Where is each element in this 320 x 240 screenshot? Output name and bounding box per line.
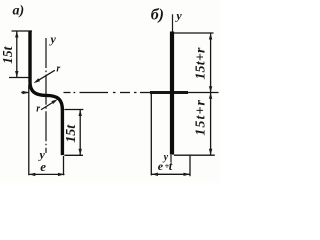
svg-text:а): а)	[13, 4, 25, 19]
svg-text:15t: 15t	[0, 45, 15, 64]
svg-text:r: r	[56, 64, 60, 75]
svg-text:y: y	[49, 32, 57, 46]
svg-text:15t+r: 15t+r	[194, 99, 209, 136]
svg-text:e: e	[40, 159, 46, 174]
svg-text:15t: 15t	[64, 124, 79, 143]
svg-text:б): б)	[151, 6, 164, 23]
svg-text:r: r	[36, 104, 40, 115]
svg-text:15t+r: 15t+r	[194, 47, 209, 80]
svg-text:y: y	[174, 8, 182, 22]
svg-text:t: t	[169, 159, 173, 173]
svg-text:e: e	[158, 159, 164, 173]
